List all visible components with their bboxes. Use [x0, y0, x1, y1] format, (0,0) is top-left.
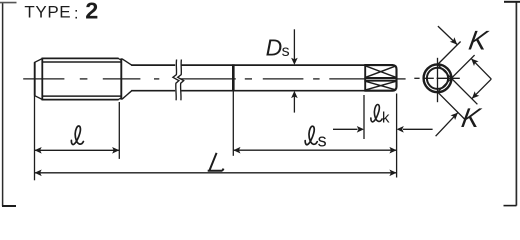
dimension ls arrows	[233, 147, 396, 154]
label ls (script ell + s)	[305, 126, 326, 150]
svg-text:D: D	[266, 35, 283, 61]
dimension Ds vertical line top	[293, 29, 295, 62]
thread chamfer end vertical	[41, 58, 43, 100]
dimension K lower line segment a	[436, 113, 458, 137]
dimension Ds arrow up	[291, 91, 298, 98]
table border top-right stub	[504, 1, 520, 3]
thread section left face	[34, 62, 36, 96]
svg-text:K: K	[467, 25, 492, 56]
end view vertical centerline	[437, 58, 439, 102]
dimension K upper line segment a	[438, 26, 457, 44]
neck cone to shank	[122, 59, 132, 99]
break symbol	[173, 60, 184, 101]
dimension lk left line and arrow	[333, 126, 364, 133]
extension line square start (lk)	[363, 95, 365, 139]
end view horizontal centerline	[414, 77, 460, 79]
extension line right of thread (l)	[118, 102, 120, 159]
extension line left (l and L)	[34, 96, 36, 180]
square drive cross-hatch X lower	[366, 81, 396, 89]
thread root lines	[42, 62, 120, 96]
square flat top-right	[438, 65, 478, 105]
svg-text:TYPE: TYPE	[24, 3, 71, 22]
table border right vertical	[515, 2, 517, 206]
svg-text:K: K	[459, 102, 484, 133]
label K upper	[467, 25, 492, 56]
table border bottom-right stub	[504, 205, 517, 207]
label L	[209, 154, 223, 171]
centerline of tap (dash-dot)	[23, 78, 405, 80]
label TYPE : 2	[24, 0, 98, 23]
square flat top-left extension	[438, 42, 461, 65]
square drive middle band	[364, 78, 396, 81]
end view inner circle	[427, 68, 448, 89]
thread right end face	[120, 58, 122, 99]
dimension l line	[35, 149, 120, 151]
square drive section outline with rounded right corners	[364, 65, 396, 91]
square drive left edge	[364, 64, 366, 91]
extension line ls boundary	[232, 92, 234, 156]
svg-text:s: s	[318, 131, 327, 151]
thread chamfer diagonals left	[34, 59, 42, 100]
square flat bottom-left extension	[438, 92, 465, 119]
shank top edge	[131, 64, 365, 66]
svg-text:2: 2	[85, 0, 98, 23]
dimension Ds arrow down	[291, 58, 298, 65]
dimension L arrows	[35, 170, 397, 177]
extension line right end (lk ls L)	[396, 94, 398, 178]
label l (script ell)	[71, 126, 83, 144]
shank bottom edge	[131, 90, 365, 92]
dimension ls line	[233, 149, 396, 151]
svg-text:s: s	[282, 43, 290, 60]
table border left vertical	[2, 2, 4, 206]
dimension K upper line segment b	[471, 59, 491, 80]
end view outer circle	[424, 64, 452, 92]
table border bottom-left stub	[2, 205, 16, 207]
table border top-left stub	[0, 2, 17, 4]
svg-text:k: k	[382, 110, 390, 127]
label K lower	[459, 102, 484, 133]
dimension L line	[35, 172, 397, 174]
label Ds	[266, 35, 290, 61]
dimension l arrows	[35, 147, 120, 154]
label lk (script ell + k)	[371, 104, 390, 126]
thread right end chamfers	[118, 58, 121, 99]
svg-text::: :	[74, 6, 78, 23]
dimension lk right line and arrow	[397, 126, 433, 133]
dimension Ds vertical line bottom	[293, 93, 295, 113]
thread major diameter lines	[42, 58, 119, 99]
square flat bottom-right	[438, 55, 475, 92]
dimension K lower line segment b	[472, 79, 491, 99]
square drive cross-hatch X upper	[366, 66, 396, 77]
shank ground-portion boundary vertical	[232, 64, 235, 91]
